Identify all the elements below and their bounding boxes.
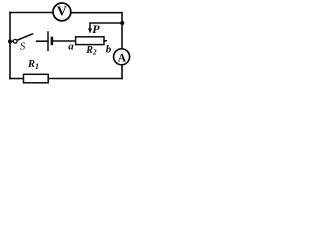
svg-text:R1: R1 [27, 59, 39, 71]
resistor R1 body [24, 74, 49, 83]
node junction dot at slider wire and right vertical [120, 21, 124, 25]
svg-text:P: P [92, 22, 100, 36]
svg-text:a: a [68, 41, 74, 53]
node junction dot at left vertical and switch [8, 39, 12, 43]
wire top-right segment [72, 12, 123, 14]
voltmeter V [53, 3, 71, 21]
svg-text:S: S [20, 41, 26, 52]
wire ammeter bottom to corner [121, 65, 123, 79]
wire rheostat right stub (terminal b) [104, 40, 107, 42]
svg-text:V: V [57, 5, 67, 20]
wire right vertical (top corner to ammeter) [121, 13, 123, 50]
wire battery-to-rheostat segment [53, 40, 76, 42]
battery cell [48, 31, 52, 51]
switch S [10, 34, 33, 43]
wire top-left segment [10, 12, 53, 14]
wire bottom-left segment [10, 78, 24, 80]
rheostat R2 body [76, 37, 104, 45]
wire slider-to-junction horizontal [90, 22, 122, 24]
wire switch-to-battery segment [37, 40, 48, 42]
rheostat slider arrow P [88, 23, 92, 34]
ammeter A [114, 49, 130, 65]
wire left vertical [9, 13, 11, 79]
svg-text:R2: R2 [85, 45, 97, 57]
svg-text:b: b [106, 43, 112, 55]
wire bottom-right segment [49, 78, 123, 80]
svg-text:A: A [118, 52, 127, 64]
